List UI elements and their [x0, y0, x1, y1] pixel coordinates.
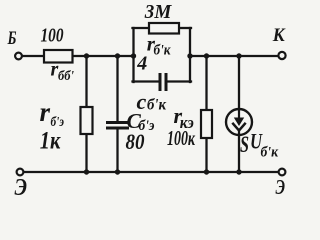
wire Б to R1	[23, 55, 45, 57]
svg-text:Э: Э	[15, 175, 28, 198]
svg-text:100: 100	[41, 25, 64, 47]
wire node b' top	[72, 55, 134, 57]
svg-text:S: S	[240, 132, 249, 157]
terminal Э right	[279, 169, 286, 176]
svg-text:К: К	[272, 25, 286, 46]
wire C_b'e to emitter rail	[116, 129, 118, 173]
junction b'-C_b'e top	[115, 53, 120, 58]
resistor r_б'к (3М)	[149, 23, 179, 34]
wire current source to emitter rail	[238, 135, 240, 173]
junction k-box right	[187, 53, 192, 58]
capacitor C_б'э plates	[106, 123, 129, 129]
svg-text:1к: 1к	[40, 128, 62, 155]
junction b'-box left	[131, 53, 136, 58]
junction k-source top	[236, 53, 241, 58]
current source chevron stem	[238, 130, 240, 135]
svg-text:100к: 100к	[167, 126, 196, 150]
svg-text:80: 80	[126, 129, 145, 154]
current source arrow line	[238, 110, 240, 120]
svg-text:4: 4	[136, 53, 147, 75]
terminal Э left	[17, 169, 24, 176]
terminal К	[278, 52, 285, 59]
junction b'-r_b'e top	[84, 53, 89, 58]
svg-text:б'к: б'к	[147, 97, 167, 114]
wire box bottom branch left	[133, 80, 160, 82]
svg-text:б'к: б'к	[154, 42, 171, 58]
junction rail r_ke	[204, 169, 209, 174]
resistor r_кэ (100к)	[201, 110, 212, 138]
wire box left vertical	[132, 28, 134, 82]
wire box right vertical	[189, 28, 191, 82]
svg-text:r: r	[40, 97, 51, 127]
wire r_ke to emitter rail	[205, 138, 207, 172]
current source chevron	[232, 123, 245, 131]
wire node k top	[189, 55, 278, 57]
wire b' down to C_b'e	[116, 56, 118, 122]
current source SU circle	[226, 109, 252, 135]
wire r_b'e to emitter rail	[85, 134, 87, 172]
wire k down to r_ke	[205, 56, 207, 110]
wire box top branch right	[180, 27, 192, 29]
svg-text:Э: Э	[276, 175, 286, 198]
wire b' down to r_b'e	[85, 56, 87, 107]
current source arrow head	[234, 118, 244, 127]
junction rail source	[236, 169, 241, 174]
wire box bottom branch right	[167, 80, 191, 82]
junction rail C_b'e	[115, 169, 120, 174]
resistor r_бб' (100)	[44, 50, 73, 63]
terminal Б	[15, 53, 22, 60]
svg-text:б'к: б'к	[261, 145, 279, 161]
svg-text:3М: 3М	[144, 1, 173, 23]
junction k-r_ke top	[204, 53, 209, 58]
wire k down to current source	[238, 56, 240, 110]
wire emitter rail	[24, 171, 278, 173]
junction rail r_b'e	[84, 169, 89, 174]
resistor r_б'э (1к)	[81, 107, 93, 134]
wire box top branch left	[133, 27, 149, 29]
capacitor c_б'к plates	[160, 73, 166, 91]
svg-text:Б: Б	[7, 28, 17, 49]
svg-text:бб': бб'	[58, 69, 74, 84]
